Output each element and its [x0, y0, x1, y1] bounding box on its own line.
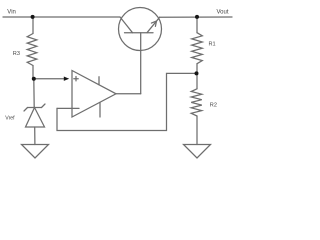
svg-text:Vin: Vin [7, 10, 16, 16]
svg-text:R1: R1 [209, 42, 216, 48]
svg-text:R3: R3 [13, 51, 20, 57]
svg-text:R2: R2 [210, 103, 217, 109]
svg-text:Vout: Vout [217, 10, 229, 16]
svg-text:Vref: Vref [5, 116, 15, 122]
